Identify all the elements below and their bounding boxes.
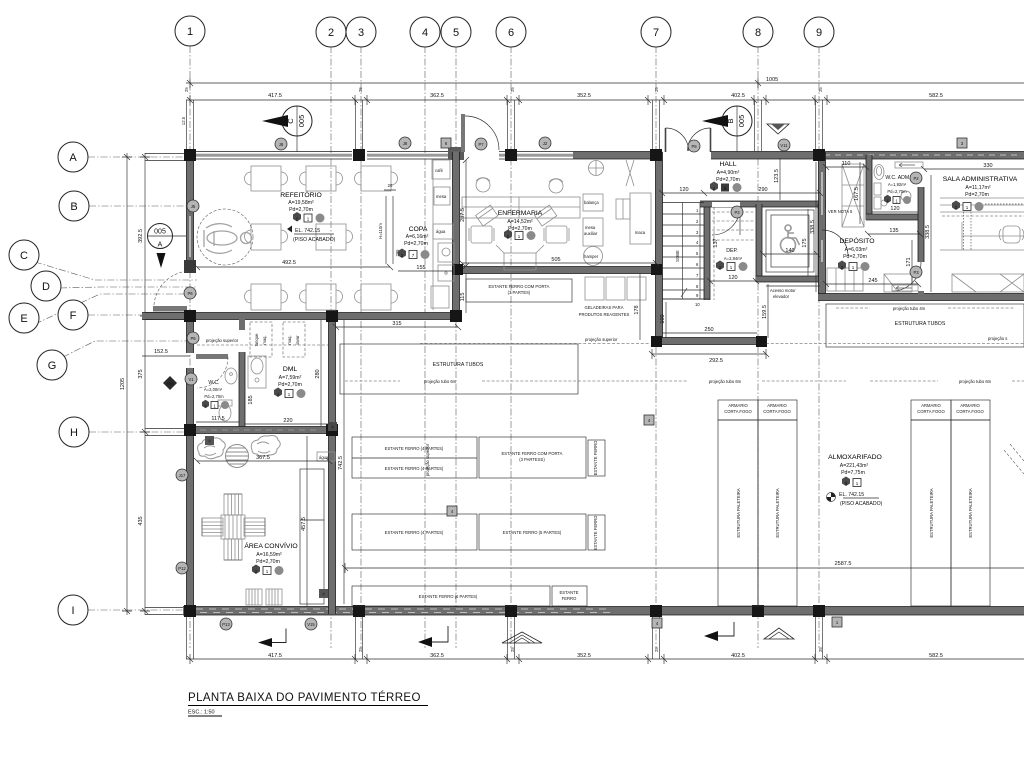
svg-text:projeção tubo 6m: projeção tubo 6m xyxy=(959,379,992,384)
svg-text:402.5: 402.5 xyxy=(731,653,745,659)
projecao superior label left xyxy=(197,338,330,345)
enfermaria sink top xyxy=(589,161,604,176)
estrutura paleteira towers 1 xyxy=(718,420,797,606)
dim 315 xyxy=(333,321,461,330)
warehouse mid dim 2587.5 xyxy=(342,561,1024,573)
tag P7 xyxy=(475,138,487,150)
svg-text:água: água xyxy=(436,229,446,234)
svg-text:P12: P12 xyxy=(178,566,186,571)
svg-text:25: 25 xyxy=(184,87,189,92)
column block I6 xyxy=(505,605,517,617)
elevator east wall xyxy=(818,204,824,282)
svg-text:185: 185 xyxy=(248,395,254,404)
svg-text:287.5: 287.5 xyxy=(460,208,466,222)
grid line H xyxy=(89,431,195,433)
column block H1 xyxy=(184,424,196,436)
svg-text:2: 2 xyxy=(328,27,334,39)
dim 245 xyxy=(823,278,921,287)
svg-text:projeção tubo 6m: projeção tubo 6m xyxy=(424,379,457,384)
svg-text:402.5: 402.5 xyxy=(731,93,745,99)
svg-text:290: 290 xyxy=(758,187,767,193)
hall west wall xyxy=(656,152,663,345)
sliding door leaf bottom right wing xyxy=(892,285,918,291)
svg-text:elevador: elevador xyxy=(773,294,790,299)
shelf C vertical xyxy=(588,440,605,476)
tag sq4 convivio xyxy=(447,506,457,516)
elevator wheelchair symbol xyxy=(781,225,800,253)
bubble 1 xyxy=(175,16,205,46)
dim 292.5 xyxy=(649,349,769,364)
svg-text:338.5: 338.5 xyxy=(925,225,931,239)
svg-text:P2: P2 xyxy=(913,176,919,181)
svg-text:J8: J8 xyxy=(279,142,284,147)
svg-text:Pd=2,70m: Pd=2,70m xyxy=(965,192,989,198)
sliding door leaf top right wing xyxy=(895,162,923,168)
svg-text:8: 8 xyxy=(755,27,761,39)
svg-text:A=1,92m²: A=1,92m² xyxy=(888,182,907,187)
svg-text:362.5: 362.5 xyxy=(430,93,444,99)
copa counter agua xyxy=(433,224,453,239)
column block I9 xyxy=(813,605,825,617)
svg-text:292.5: 292.5 xyxy=(709,358,723,364)
svg-text:362.5: 362.5 xyxy=(430,653,444,659)
svg-text:25: 25 xyxy=(510,87,515,92)
svg-text:Pd=2,70m: Pd=2,70m xyxy=(887,189,907,194)
TITLE xyxy=(188,691,428,716)
svg-text:A=221,43m²: A=221,43m² xyxy=(840,463,869,469)
svg-text:V1: V1 xyxy=(188,377,194,382)
icons wc xyxy=(202,400,229,409)
column block hall S xyxy=(651,336,662,347)
dim 167.5 xyxy=(854,162,860,224)
svg-text:ESTRUTURA PALETEIRA: ESTRUTURA PALETEIRA xyxy=(929,488,934,537)
shelf G estante ferro 6 partes xyxy=(352,586,550,606)
left overall dim line 1205 xyxy=(120,153,132,615)
dim 155 copa xyxy=(398,265,452,271)
column stubs above top wall xyxy=(187,100,823,151)
enfermaria recliner 1 xyxy=(476,205,498,226)
sala west wall door + block xyxy=(892,262,924,300)
dim 338.5 right xyxy=(925,175,931,292)
svg-text:projeção tubo 4m: projeção tubo 4m xyxy=(893,306,926,311)
svg-text:ESTANTE FERRO: ESTANTE FERRO xyxy=(593,440,598,476)
left segment dim line xyxy=(138,116,186,615)
svg-text:330: 330 xyxy=(983,163,992,169)
svg-text:ESTANTE FERRO (4 PARTES): ESTANTE FERRO (4 PARTES) xyxy=(385,446,444,451)
FURNITURE xyxy=(197,160,1024,605)
STAIRS xyxy=(662,203,820,308)
arrow bottom warehouse xyxy=(418,626,448,647)
svg-text:25: 25 xyxy=(818,87,823,92)
dim 492.5 xyxy=(194,260,393,270)
convivio striped round table xyxy=(226,445,249,468)
svg-text:A=16,59m²: A=16,59m² xyxy=(256,552,282,558)
bubble 7 xyxy=(641,17,671,47)
svg-text:balança: balança xyxy=(584,200,599,205)
tag P2 xyxy=(910,172,922,184)
svg-text:PRODUTOS REAGENTES: PRODUTOS REAGENTES xyxy=(579,312,630,317)
ramp symbol bottom xyxy=(502,632,542,643)
dim 287.5 xyxy=(460,157,469,269)
svg-text:J5: J5 xyxy=(191,204,196,209)
mesa auxiliar xyxy=(583,218,603,246)
tag J8 b xyxy=(399,137,411,149)
stair middle wall xyxy=(704,202,710,300)
column block A6 xyxy=(505,149,517,161)
shelf F vertical xyxy=(588,515,605,551)
column stubs below bottom wall xyxy=(187,615,823,659)
wc adm south wall xyxy=(866,214,924,220)
el 742.15 almoxarifado xyxy=(827,492,883,507)
convivio chair top xyxy=(224,494,242,515)
svg-text:P6: P6 xyxy=(187,291,193,296)
dep door gap + swing xyxy=(712,202,740,235)
icons enfermaria xyxy=(504,230,536,241)
svg-text:C: C xyxy=(20,250,28,262)
copa window dims xyxy=(378,183,400,264)
wc adm fixtures xyxy=(874,183,887,209)
tag V15 xyxy=(305,618,317,630)
svg-text:492.5: 492.5 xyxy=(282,260,296,266)
svg-text:582.5: 582.5 xyxy=(929,93,943,99)
svg-text:Pd=2,70m: Pd=2,70m xyxy=(204,394,224,399)
svg-text:A=2,84m²: A=2,84m² xyxy=(724,256,743,261)
convivio east bench band xyxy=(300,469,324,604)
svg-text:315: 315 xyxy=(392,321,401,327)
projecao tubo 6m line left xyxy=(345,379,576,384)
icons wc adm xyxy=(884,195,911,204)
room label wc adm xyxy=(885,175,910,194)
icons copa xyxy=(398,249,430,260)
elevator west wall xyxy=(756,204,762,282)
dim 175 elevator xyxy=(802,209,808,276)
bubble C xyxy=(9,240,39,270)
copa counter cafe xyxy=(432,160,450,179)
column block A3 xyxy=(353,149,365,161)
tag sq4 south xyxy=(652,618,662,628)
north arrow bottom convivio xyxy=(258,629,286,648)
tag J8 a xyxy=(275,138,287,150)
stair step numbers xyxy=(695,208,700,307)
dim 367.5 xyxy=(194,455,332,464)
room label wc xyxy=(204,380,224,399)
svg-text:135: 135 xyxy=(889,228,898,234)
dim 457.5 xyxy=(301,436,307,606)
svg-text:ESTANTE FERRO: ESTANTE FERRO xyxy=(593,515,598,551)
bubble A xyxy=(58,142,88,172)
svg-text:167.5: 167.5 xyxy=(854,187,860,201)
top wall enfermaria solid part xyxy=(573,152,662,160)
dim 171 xyxy=(906,240,912,284)
tag P3 deposito xyxy=(910,266,922,278)
dml proj box 1 xyxy=(250,322,272,357)
grid line D leader xyxy=(60,287,197,288)
convivio mat 2 xyxy=(266,589,282,605)
geladeiras label xyxy=(579,305,630,317)
svg-text:mesa: mesa xyxy=(436,194,447,199)
svg-text:1: 1 xyxy=(187,26,193,38)
svg-text:CORTA FOGO: CORTA FOGO xyxy=(763,409,791,414)
grid line C leader xyxy=(35,262,197,280)
grid line F xyxy=(88,314,205,316)
svg-text:I: I xyxy=(71,605,74,617)
grid line 6 xyxy=(510,46,512,648)
dim 140 elevator xyxy=(760,248,820,257)
grid line G leader xyxy=(63,341,192,357)
corner dashed pallet right xyxy=(1004,444,1024,474)
svg-text:435: 435 xyxy=(138,516,144,525)
svg-text:P9: P9 xyxy=(691,144,697,149)
icons deposito xyxy=(838,261,870,272)
convivio sofa blob 2 xyxy=(251,436,280,457)
dim 290 hall xyxy=(704,187,823,196)
svg-text:CORTA FOGO: CORTA FOGO xyxy=(917,409,945,414)
svg-text:10: 10 xyxy=(695,302,700,307)
room label area convivio xyxy=(244,541,297,565)
svg-text:2587.5: 2587.5 xyxy=(835,561,852,567)
icons sala xyxy=(952,201,1024,251)
svg-text:COPA: COPA xyxy=(409,226,428,233)
svg-text:projeção superior: projeção superior xyxy=(206,338,239,343)
refectory table r2c2 xyxy=(316,224,353,250)
copa bottom cabinet xyxy=(431,160,449,310)
svg-text:ESC.: 1:50: ESC.: 1:50 xyxy=(188,710,215,716)
grid line 8 xyxy=(757,46,759,648)
svg-text:ESTANTE FERRO (4 PARTES): ESTANTE FERRO (4 PARTES) xyxy=(385,530,444,535)
svg-text:Pd=2,70m: Pd=2,70m xyxy=(404,241,428,247)
refectory table r1c1 xyxy=(245,166,288,191)
grid line 7 xyxy=(655,46,657,648)
stair landing line xyxy=(662,298,710,300)
svg-text:457.5: 457.5 xyxy=(301,517,307,531)
refectory table r3c3 xyxy=(355,284,398,310)
shelf A estante ferro 4 partes x2 xyxy=(352,437,477,478)
SHELVES xyxy=(197,277,1024,606)
deposito shelf xyxy=(827,268,863,291)
refectory table r1c2 xyxy=(300,166,343,191)
svg-text:005: 005 xyxy=(297,115,306,128)
enfermaria desk xyxy=(462,197,580,218)
bubble 9 xyxy=(804,17,834,47)
wc west door leaf + swing xyxy=(196,354,228,388)
hall south wall xyxy=(652,338,766,345)
refectory table r3c1 xyxy=(245,284,288,310)
convivio cross table center xyxy=(221,515,245,539)
svg-text:9: 9 xyxy=(816,27,822,39)
dim 110 xyxy=(823,161,869,170)
elevator south wall xyxy=(756,276,824,282)
bubble D xyxy=(31,271,61,301)
column block A7 xyxy=(650,149,662,161)
svg-text:6: 6 xyxy=(508,27,514,39)
svg-text:G: G xyxy=(48,360,57,372)
svg-text:Pd=7,75m: Pd=7,75m xyxy=(841,470,865,476)
dim 505 xyxy=(459,257,659,266)
wc adm west wall xyxy=(866,155,872,220)
sala adm side table xyxy=(884,274,912,292)
column block F1 xyxy=(184,310,196,322)
estrutura tubos box left xyxy=(340,344,578,394)
column block I8 xyxy=(752,605,764,617)
bubble 8 xyxy=(743,17,773,47)
convivio sofa blob 1 xyxy=(198,438,226,459)
room label hall xyxy=(716,161,740,183)
dim 220 xyxy=(245,418,329,424)
bubble 2 xyxy=(316,17,346,47)
tag P12 xyxy=(176,562,188,574)
bubble I xyxy=(58,595,88,625)
dim 250 xyxy=(662,327,757,333)
svg-text:392.5: 392.5 xyxy=(138,229,144,243)
projecao superior label mid xyxy=(420,336,1024,344)
tag sq6 xyxy=(441,138,451,148)
svg-text:A: A xyxy=(158,242,163,249)
right wing south wall xyxy=(818,294,1024,301)
svg-text:375: 375 xyxy=(138,369,144,378)
icons almoxarifado xyxy=(842,477,861,487)
convivio chair left xyxy=(202,518,223,536)
svg-text:ESTANTE FERRO COM PORTA: ESTANTE FERRO COM PORTA xyxy=(502,451,563,456)
svg-text:P13: P13 xyxy=(222,622,230,627)
tag sq4 convivio east wall xyxy=(319,589,328,598)
copa lower cabinet xyxy=(438,265,454,281)
section marker 005A xyxy=(148,224,187,269)
svg-text:159.5: 159.5 xyxy=(762,305,768,319)
geladeiras squares xyxy=(585,277,646,300)
svg-text:ESTANTE FERRO (4 PARTES): ESTANTE FERRO (4 PARTES) xyxy=(385,466,444,471)
bubble B xyxy=(59,191,89,221)
enfermaria chair 1 xyxy=(476,178,490,192)
balanca xyxy=(583,194,603,211)
title underline xyxy=(188,706,428,717)
dml south wall xyxy=(186,427,336,434)
convivio chair right xyxy=(244,518,265,536)
tag diamond 005 left xyxy=(163,376,177,390)
wheelchair turning circle xyxy=(197,209,253,265)
svg-text:ENFERMARIA: ENFERMARIA xyxy=(498,210,543,217)
svg-text:417.5: 417.5 xyxy=(268,653,282,659)
tag V11 xyxy=(778,139,790,151)
upper flight dashed treads xyxy=(712,207,754,300)
ramp triangle below hall xyxy=(764,628,794,639)
svg-text:F: F xyxy=(70,310,77,322)
dim 330 xyxy=(921,163,1024,172)
svg-text:VER NOTA 5: VER NOTA 5 xyxy=(828,209,853,214)
hall double door leaves xyxy=(666,128,711,152)
svg-text:220: 220 xyxy=(283,418,292,424)
svg-text:ARMARIO: ARMARIO xyxy=(767,403,787,408)
shelf E estante ferro 5 partes xyxy=(479,514,586,550)
dim 120 dep xyxy=(707,275,759,284)
svg-text:DEPÓSITO: DEPÓSITO xyxy=(840,236,875,245)
shelf H estante ferro small xyxy=(552,586,587,606)
svg-text:7: 7 xyxy=(653,27,659,39)
dim 100 xyxy=(660,302,666,338)
grid line 4 xyxy=(424,46,426,648)
svg-text:ALMOXARIFADO: ALMOXARIFADO xyxy=(828,454,882,461)
svg-text:742.5: 742.5 xyxy=(338,456,344,470)
svg-text:projeção superior: projeção superior xyxy=(585,337,618,342)
svg-text:P5: P5 xyxy=(190,336,196,341)
svg-text:25: 25 xyxy=(654,87,659,92)
svg-text:245: 245 xyxy=(868,278,877,284)
dim 338.5 left xyxy=(810,162,816,292)
svg-text:ESTRUTURA TUBOS: ESTRUTURA TUBOS xyxy=(433,362,484,368)
svg-text:(3 PARTES): (3 PARTES) xyxy=(508,290,531,295)
svg-text:DEP.: DEP. xyxy=(726,248,737,254)
svg-text:1005: 1005 xyxy=(766,77,778,83)
svg-text:ESTRUTURA PALETEIRA: ESTRUTURA PALETEIRA xyxy=(736,488,741,537)
svg-text:4: 4 xyxy=(422,27,428,39)
svg-text:B: B xyxy=(70,201,77,213)
agua box convivio xyxy=(317,452,335,461)
svg-text:ESTANTE: ESTANTE xyxy=(559,590,578,595)
svg-text:CORTA FOGO: CORTA FOGO xyxy=(956,409,984,414)
grid line 5 xyxy=(455,46,457,648)
svg-text:140: 140 xyxy=(785,248,794,254)
dim 280 xyxy=(315,320,321,426)
svg-text:projeção tubo 6m: projeção tubo 6m xyxy=(709,379,742,384)
column block I3 xyxy=(353,605,365,617)
dim 123.5 xyxy=(774,158,780,200)
sala adm chair xyxy=(999,226,1024,243)
top wall copa window band xyxy=(367,152,448,160)
dim 178 xyxy=(634,274,640,340)
svg-text:178: 178 xyxy=(634,305,640,314)
tag sq4 wc xyxy=(205,436,214,445)
grid line 1 xyxy=(189,46,191,648)
projecao tubo 6m line right xyxy=(870,379,1024,384)
svg-text:V11: V11 xyxy=(780,143,788,148)
svg-text:A=11,17m²: A=11,17m² xyxy=(965,185,990,191)
enfermaria cabinet xyxy=(616,199,630,219)
stair treads xyxy=(662,203,704,300)
enfermaria armchair 2 xyxy=(544,226,569,243)
convivio chair bottom xyxy=(224,539,242,560)
west wall wc block lower xyxy=(187,368,194,433)
arrow below hall xyxy=(704,622,734,641)
svg-text:H: H xyxy=(70,427,78,439)
enfermaria entry door leaf xyxy=(461,114,499,152)
svg-text:SALA ADMINISTRATIVA: SALA ADMINISTRATIVA xyxy=(943,176,1018,183)
bubble H xyxy=(59,417,89,447)
svg-text:maq.: maq. xyxy=(287,335,292,344)
tag P5 xyxy=(187,332,199,344)
bottom dim line xyxy=(186,647,1024,664)
refectory west door leaf + swing xyxy=(153,271,190,312)
svg-text:ARMARIO: ARMARIO xyxy=(728,403,748,408)
svg-text:115: 115 xyxy=(460,293,466,302)
svg-text:maq.: maq. xyxy=(262,335,267,344)
WALLS xyxy=(142,114,1024,617)
bubble E xyxy=(9,303,39,333)
copa sink xyxy=(438,243,454,262)
svg-text:DML: DML xyxy=(283,366,298,373)
svg-text:A=14,52m²: A=14,52m² xyxy=(507,219,533,225)
svg-text:250: 250 xyxy=(704,327,713,333)
room label dep xyxy=(724,248,743,261)
column block F5 xyxy=(450,310,462,322)
top segment dim line xyxy=(184,87,1024,105)
column block I7 xyxy=(650,605,662,617)
icons refeitorio xyxy=(293,212,325,223)
west wall area convivio xyxy=(187,430,194,614)
svg-text:Pd=2,70m: Pd=2,70m xyxy=(716,177,740,183)
DIMENSIONS xyxy=(120,77,1024,664)
svg-text:Pd=2,70m: Pd=2,70m xyxy=(843,254,867,260)
svg-text:Acesso motor: Acesso motor xyxy=(770,288,796,293)
svg-text:100: 100 xyxy=(660,314,666,323)
